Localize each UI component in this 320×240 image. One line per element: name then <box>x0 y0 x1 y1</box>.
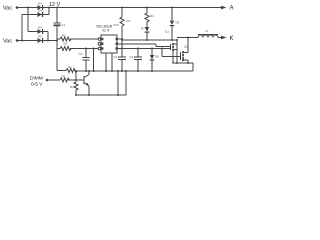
svg-text:A: A <box>230 5 234 11</box>
svg-text:220: 220 <box>114 23 119 27</box>
svg-text:D5: D5 <box>38 26 42 30</box>
svg-text:R7: R7 <box>70 85 74 89</box>
svg-text:D3: D3 <box>38 2 42 6</box>
svg-text:D9: D9 <box>176 21 180 25</box>
svg-text:R1: R1 <box>62 34 66 38</box>
svg-text:Vac: Vac <box>3 6 12 12</box>
svg-text:0-5 V: 0-5 V <box>31 82 43 88</box>
svg-text:C4: C4 <box>130 55 134 59</box>
svg-text:D8: D8 <box>155 55 159 59</box>
svg-text:R4: R4 <box>150 14 154 18</box>
svg-text:IC 4: IC 4 <box>103 29 110 33</box>
svg-text:Q1: Q1 <box>165 30 169 34</box>
svg-text:C3: C3 <box>114 55 118 59</box>
svg-text:R2: R2 <box>64 42 68 46</box>
svg-text:R5: R5 <box>62 75 66 79</box>
svg-text:R3: R3 <box>127 19 131 23</box>
svg-text:Rs: Rs <box>68 65 72 69</box>
svg-text:C2: C2 <box>79 52 83 56</box>
svg-text:D4: D4 <box>38 9 42 13</box>
svg-text:D7: D7 <box>141 27 145 31</box>
svg-text:C1: C1 <box>62 23 66 27</box>
svg-text:Vac: Vac <box>3 39 12 45</box>
svg-text:K: K <box>230 36 234 42</box>
svg-text:Q2: Q2 <box>184 45 188 49</box>
svg-text:D6: D6 <box>38 35 42 39</box>
svg-text:12 V: 12 V <box>49 2 61 8</box>
svg-text:DIMM: DIMM <box>30 76 43 82</box>
svg-text:L2: L2 <box>205 29 209 33</box>
